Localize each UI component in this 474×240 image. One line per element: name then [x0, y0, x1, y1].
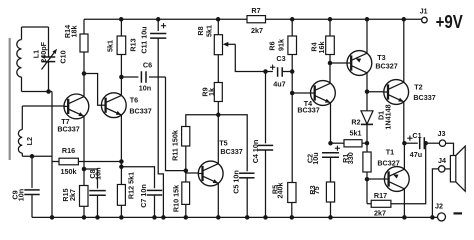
svg-text:+9V: +9V [436, 11, 464, 32]
svg-text:T2: T2 [414, 83, 422, 92]
svg-text:R12 5k1: R12 5k1 [127, 172, 136, 199]
svg-text:10n: 10n [139, 84, 151, 93]
svg-text:R11 150k: R11 150k [171, 130, 180, 161]
svg-text:BC327: BC327 [377, 159, 399, 168]
svg-text:BC337: BC337 [129, 107, 151, 116]
svg-text:5k1: 5k1 [106, 40, 115, 52]
svg-text:C11 10u: C11 10u [140, 26, 149, 53]
svg-text:240k: 240k [275, 183, 284, 199]
svg-text:4u7: 4u7 [273, 80, 285, 89]
svg-text:240pF: 240pF [39, 41, 48, 62]
svg-text:C3: C3 [276, 54, 285, 63]
svg-text:10n: 10n [17, 189, 26, 201]
svg-text:R17: R17 [374, 191, 387, 200]
svg-text:1k: 1k [207, 88, 216, 96]
svg-text:18k: 18k [70, 26, 79, 38]
svg-text:1N4148: 1N4148 [384, 104, 393, 129]
svg-text:BC337: BC337 [220, 147, 242, 156]
svg-text:C1: C1 [412, 131, 421, 140]
svg-text:J3: J3 [438, 129, 446, 138]
svg-text:5k1: 5k1 [205, 25, 214, 37]
svg-text:T6: T6 [130, 96, 138, 105]
svg-text:T1: T1 [386, 148, 394, 157]
svg-text:C4 10n: C4 10n [251, 140, 260, 164]
svg-text:47u: 47u [410, 150, 422, 159]
svg-text:R7: R7 [251, 6, 260, 15]
svg-text:C10: C10 [59, 50, 68, 63]
svg-text:10u: 10u [311, 152, 320, 164]
svg-text:L2: L2 [25, 137, 34, 145]
svg-text:R2: R2 [351, 118, 360, 127]
svg-text:C7 10n: C7 10n [139, 184, 148, 208]
svg-text:J2: J2 [435, 202, 443, 211]
svg-text:5k1: 5k1 [350, 129, 362, 138]
svg-text:150k: 150k [61, 167, 77, 176]
svg-text:2k7: 2k7 [374, 209, 386, 218]
svg-text:C5 10n: C5 10n [231, 170, 240, 194]
svg-text:J4: J4 [438, 156, 446, 165]
svg-text:75: 75 [312, 186, 321, 194]
svg-text:R13: R13 [129, 38, 138, 51]
svg-text:BC327: BC327 [375, 62, 397, 71]
svg-text:2k7: 2k7 [251, 26, 263, 35]
svg-text:BC337: BC337 [413, 93, 435, 102]
svg-text:R16: R16 [62, 146, 75, 155]
svg-text:BC337: BC337 [57, 124, 79, 133]
svg-text:2k7: 2k7 [68, 189, 77, 201]
svg-text:R6: R6 [268, 41, 277, 50]
svg-text:16k: 16k [317, 42, 326, 54]
svg-text:J1: J1 [420, 8, 428, 15]
svg-text:330: 330 [346, 152, 355, 164]
svg-text:10n: 10n [93, 168, 102, 180]
svg-text:C6: C6 [143, 61, 152, 70]
svg-text:R10 15k: R10 15k [172, 185, 181, 212]
svg-text:91k: 91k [277, 39, 286, 51]
svg-text:BC337: BC337 [297, 106, 319, 115]
